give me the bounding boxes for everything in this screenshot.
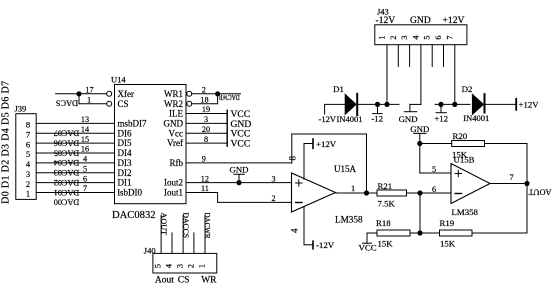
svg-text:16: 16 [81,145,89,154]
svg-text:R20: R20 [453,131,468,141]
svg-text:4: 4 [26,159,31,169]
svg-text:U15A: U15A [334,164,356,174]
svg-text:-12V: -12V [319,114,337,124]
svg-text:5: 5 [83,165,87,174]
svg-text:2: 2 [202,86,206,95]
svg-text:2: 2 [271,194,275,203]
svg-text:5: 5 [432,165,436,174]
svg-text:Iout1: Iout1 [164,188,183,198]
svg-text:4: 4 [83,155,87,164]
svg-text:+12V: +12V [519,100,540,110]
svg-text:WR: WR [201,276,217,286]
svg-text:J39: J39 [15,104,27,114]
svg-text:LM358: LM358 [452,207,479,217]
svg-text:GND: GND [229,165,248,175]
svg-text:CS: CS [178,276,190,286]
svg-text:-12V: -12V [316,240,335,250]
svg-text:6: 6 [83,174,87,183]
svg-text:IN4001: IN4001 [337,114,363,124]
svg-text:Xfer: Xfer [118,89,135,99]
svg-text:U14: U14 [111,75,126,85]
svg-text:3: 3 [400,36,409,40]
svg-text:DI5: DI5 [118,138,132,148]
svg-text:R18: R18 [376,218,391,228]
svg-text:GND: GND [410,124,429,134]
svg-text:GND: GND [410,15,431,26]
svg-text:Vref: Vref [167,138,183,148]
svg-text:7: 7 [83,184,87,193]
svg-text:CS: CS [118,99,129,109]
svg-text:DACCS: DACCS [181,213,190,239]
svg-text:11: 11 [201,184,209,193]
svg-text:1: 1 [351,184,355,193]
svg-text:15: 15 [81,135,89,144]
svg-text:2: 2 [389,36,398,40]
svg-text:DAC00: DAC00 [54,198,79,207]
svg-text:1: 1 [87,95,91,104]
svg-text:14: 14 [81,125,89,134]
svg-text:Aout: Aout [155,276,174,286]
svg-text:7.5K: 7.5K [378,199,396,209]
svg-text:5: 5 [26,149,30,159]
svg-text:19: 19 [202,105,210,114]
svg-text:WR2: WR2 [164,99,183,109]
svg-text:6: 6 [432,185,436,194]
svg-text:LM358: LM358 [335,215,363,225]
svg-text:+12V: +12V [443,15,465,26]
svg-text:3: 3 [176,264,185,268]
svg-text:8: 8 [287,155,297,160]
svg-text:7: 7 [445,36,454,40]
svg-text:3: 3 [271,174,275,183]
svg-text:18: 18 [200,95,208,104]
svg-text:DACWR: DACWR [218,93,240,102]
svg-text:VCC: VCC [359,243,377,253]
svg-text:DI6: DI6 [118,128,132,138]
svg-text:6: 6 [26,139,30,149]
svg-text:DI1: DI1 [118,178,132,188]
svg-text:12: 12 [201,174,209,183]
svg-text:J40: J40 [144,246,156,256]
svg-text:3: 3 [26,169,30,179]
svg-text:DACS: DACS [55,99,78,108]
svg-text:DAC0832: DAC0832 [112,210,156,221]
svg-text:3: 3 [204,115,208,124]
svg-text:R21: R21 [378,181,393,191]
svg-text:WR1: WR1 [164,89,183,99]
svg-text:IN4001: IN4001 [463,113,489,123]
svg-text:D0 D1 D2 D3 D4 D5 D6 D7: D0 D1 D2 D3 D4 D5 D6 D7 [1,81,12,204]
svg-text:7: 7 [509,173,513,182]
svg-text:AOUT: AOUT [159,213,168,236]
svg-text:R19: R19 [440,218,455,228]
svg-text:ILE: ILE [169,109,183,119]
svg-text:15K: 15K [452,150,468,160]
svg-text:GND: GND [399,114,418,124]
svg-text:20: 20 [202,125,210,134]
svg-text:-12V: -12V [376,15,396,26]
svg-text:Iout2: Iout2 [164,178,183,188]
svg-text:4: 4 [411,36,420,40]
svg-text:7: 7 [26,130,30,140]
svg-text:13: 13 [81,115,89,124]
svg-text:2: 2 [186,264,195,268]
svg-text:+12: +12 [434,114,448,124]
svg-text:D1: D1 [333,84,344,94]
svg-text:5: 5 [154,264,163,268]
svg-text:+12V: +12V [316,139,337,149]
svg-text:1: 1 [26,189,30,199]
svg-text:VCC: VCC [231,139,251,150]
svg-text:lsbDI0: lsbDI0 [118,188,143,198]
svg-text:5: 5 [423,36,432,40]
svg-text:D2: D2 [462,84,473,94]
svg-text:Rfb: Rfb [170,158,184,168]
svg-text:4: 4 [290,228,300,233]
svg-text:15K: 15K [440,239,456,249]
svg-text:msbDI7: msbDI7 [118,119,147,129]
svg-text:DI3: DI3 [118,158,132,168]
svg-text:4: 4 [165,264,174,268]
svg-text:15K: 15K [378,239,394,249]
svg-text:DI4: DI4 [118,148,132,158]
svg-text:DI2: DI2 [118,168,132,178]
svg-text:9: 9 [202,155,206,164]
svg-text:2: 2 [26,179,30,189]
svg-text:DACWR: DACWR [203,213,212,240]
svg-text:AOUT: AOUT [529,187,552,196]
svg-text:17: 17 [85,86,93,95]
svg-text:GND: GND [164,119,184,129]
svg-text:-12: -12 [371,114,383,124]
svg-text:8: 8 [26,120,30,130]
svg-text:8: 8 [204,135,208,144]
svg-text:1: 1 [378,36,387,40]
svg-text:1: 1 [198,264,207,268]
svg-text:6: 6 [434,36,443,40]
svg-text:Vcc: Vcc [169,128,184,138]
